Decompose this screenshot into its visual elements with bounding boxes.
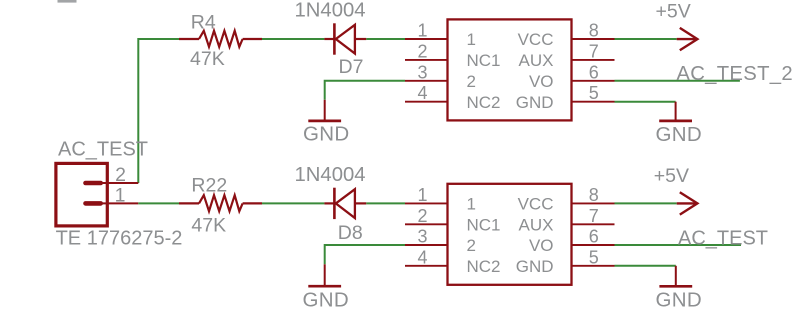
svg-text:3: 3: [417, 62, 427, 82]
U1 right pin stubs 8-5: [572, 39, 615, 102]
svg-text:NC1: NC1: [467, 216, 501, 235]
wire D7 to U1 pin 1: [366, 38, 405, 40]
svg-text:VCC: VCC: [518, 195, 554, 214]
U2 pin names left column: [467, 195, 501, 276]
svg-text:1: 1: [467, 195, 476, 214]
U2 right pin stubs 8-5: [572, 203, 615, 265]
cropped text fragment top-left: [58, 0, 77, 3]
U1 pin names right column: [516, 30, 554, 112]
wire R22 to D8: [262, 202, 324, 204]
connector pin 1 contact: [86, 201, 101, 206]
wire U1 pin 6 net AC_TEST_2: [615, 80, 740, 82]
svg-text:5: 5: [589, 83, 599, 103]
connector pin 1 lead: [101, 202, 139, 204]
svg-text:D7: D7: [339, 56, 364, 78]
svg-text:VCC: VCC: [518, 30, 554, 49]
connector J1 body: [56, 163, 107, 226]
svg-text:4: 4: [417, 83, 427, 103]
+5V supply symbol (upper): [677, 28, 698, 50]
connector pin 2 contact: [86, 181, 101, 186]
svg-text:2: 2: [417, 41, 427, 61]
U2 pin numbers right: [589, 185, 599, 267]
svg-text:7: 7: [589, 206, 599, 226]
svg-text:47K: 47K: [191, 214, 226, 236]
resistor R4: [179, 31, 262, 47]
wire connector pin 1 to R22: [138, 202, 179, 204]
svg-text:2: 2: [467, 72, 476, 91]
svg-text:1N4004: 1N4004: [295, 164, 366, 186]
wire vertical from upper rail to connector pin 2: [138, 39, 179, 183]
U1 pin names left column: [467, 30, 501, 112]
svg-text:NC2: NC2: [467, 257, 501, 276]
connector pin 2 lead: [101, 182, 139, 184]
U1 left pin stubs 1-4: [405, 39, 448, 102]
ground symbol below D8: [308, 264, 341, 286]
svg-text:AC_TEST_2: AC_TEST_2: [676, 63, 793, 85]
svg-text:R22: R22: [191, 175, 227, 197]
svg-text:R4: R4: [191, 11, 216, 33]
svg-text:GND: GND: [303, 123, 349, 146]
svg-text:AUX: AUX: [519, 51, 554, 70]
svg-text:NC1: NC1: [467, 51, 501, 70]
ground symbol below D7: [308, 100, 341, 121]
svg-text:6: 6: [589, 227, 599, 247]
svg-text:AUX: AUX: [519, 216, 554, 235]
svg-text:8: 8: [589, 21, 599, 41]
svg-text:GND: GND: [303, 289, 349, 312]
U1 pin numbers left: [417, 21, 427, 104]
wire U1 pin 3 to ground: [325, 81, 405, 100]
U2 pin numbers left: [417, 185, 427, 267]
svg-text:6: 6: [589, 62, 599, 82]
diode D8: [324, 188, 366, 219]
svg-text:+5V: +5V: [656, 1, 691, 23]
svg-text:D8: D8: [338, 222, 363, 244]
svg-text:2: 2: [115, 164, 126, 186]
diode D7: [324, 23, 366, 54]
wire D8 to U2 pin 1: [366, 202, 405, 204]
svg-text:3: 3: [417, 227, 427, 247]
svg-text:1N4004: 1N4004: [295, 0, 366, 21]
svg-text:GND: GND: [516, 257, 554, 276]
U2 pin names right column: [516, 195, 554, 276]
wire R4 to D7: [262, 38, 324, 40]
svg-text:AC_TEST: AC_TEST: [678, 227, 768, 249]
svg-text:2: 2: [417, 206, 427, 226]
wire U1 pin 8 to +5V: [615, 38, 677, 40]
U2 left pin stubs 1-4: [405, 203, 448, 265]
svg-text:8: 8: [589, 185, 599, 205]
svg-text:1: 1: [115, 185, 126, 207]
wire U2 pin 5 to ground: [615, 265, 676, 267]
svg-text:5: 5: [589, 247, 599, 267]
svg-text:GND: GND: [516, 93, 554, 112]
svg-text:1: 1: [417, 185, 427, 205]
ground symbol right of U1: [659, 102, 692, 121]
svg-text:1: 1: [417, 21, 427, 41]
wire U1 pin 5 to ground: [615, 101, 676, 103]
svg-text:GND: GND: [656, 123, 702, 146]
wire U2 pin 3 to ground: [325, 245, 405, 264]
svg-text:2: 2: [467, 236, 476, 255]
wire U2 pin 8 to +5V: [615, 202, 677, 204]
svg-text:7: 7: [589, 41, 599, 61]
svg-text:NC2: NC2: [467, 93, 501, 112]
svg-text:TE 1776275-2: TE 1776275-2: [56, 228, 183, 250]
svg-text:47K: 47K: [190, 48, 225, 70]
svg-text:1: 1: [467, 30, 476, 49]
resistor R22: [179, 195, 262, 211]
svg-text:VO: VO: [529, 236, 554, 255]
svg-text:+5V: +5V: [654, 165, 689, 187]
optocoupler U2 box: [448, 184, 572, 285]
svg-text:VO: VO: [529, 72, 554, 91]
wire U2 pin 6 net AC_TEST: [615, 244, 742, 246]
U1 pin numbers right: [589, 21, 599, 104]
ground symbol right of U2: [659, 266, 692, 287]
svg-text:GND: GND: [656, 288, 702, 311]
svg-text:4: 4: [417, 247, 427, 267]
optocoupler U1 box: [448, 19, 572, 120]
+5V supply symbol (lower): [677, 192, 698, 214]
svg-text:AC_TEST: AC_TEST: [58, 139, 148, 161]
